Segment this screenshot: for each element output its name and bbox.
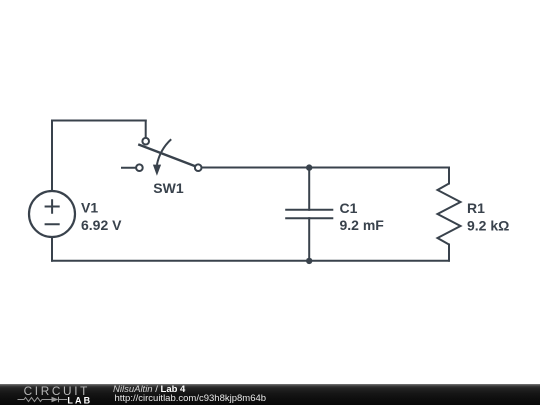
svg-text:V1: V1 xyxy=(81,200,98,216)
capacitor C1 xyxy=(285,210,333,218)
svg-text:9.2 kΩ: 9.2 kΩ xyxy=(467,217,509,233)
svg-text:LAB: LAB xyxy=(67,396,92,405)
wire left vertical lower (V1 bottom to bottom rail) xyxy=(51,237,53,261)
wire C1 bottom lead xyxy=(308,218,310,261)
svg-text:6.92 V: 6.92 V xyxy=(81,217,122,233)
SW1 throw terminal open (pin 2) xyxy=(136,164,143,171)
footer attribution xyxy=(113,383,533,385)
svg-text:R1: R1 xyxy=(467,200,485,216)
wire R1 top lead xyxy=(448,168,450,184)
wire R1 bottom lead xyxy=(448,245,450,261)
wire SW1 open-throw stub xyxy=(122,167,136,169)
label C1 xyxy=(340,200,358,216)
node A junction dot (C1 top) xyxy=(306,164,312,170)
wire bottom rail right (node B to R1) xyxy=(309,260,449,262)
wire bottom rail left (V1 to node B) xyxy=(52,260,309,262)
footer url xyxy=(115,394,267,403)
svg-text:C1: C1 xyxy=(340,200,358,216)
node B junction dot (C1 bottom) xyxy=(306,258,312,264)
SW1 actuation arrow xyxy=(153,139,171,176)
SW1 throw terminal top (pin 1) xyxy=(142,138,149,145)
value 6.92 V xyxy=(81,217,122,233)
value 9.2 mF xyxy=(340,217,385,233)
SW1 common terminal (pin 3) xyxy=(195,164,202,171)
CircuitLab logo xyxy=(0,384,110,405)
label V1 xyxy=(81,200,98,216)
svg-text:9.2 mF: 9.2 mF xyxy=(340,217,385,233)
wire left vertical upper (top rail to V1 top) xyxy=(51,121,53,192)
wire switch drop (top rail down to SW1 terminal) xyxy=(145,121,147,138)
switch SW1 xyxy=(136,138,201,176)
footer bar xyxy=(0,384,540,405)
value 9.2 kOhm xyxy=(467,217,509,233)
wire mid rail right (node A to R1 top corner) xyxy=(309,167,449,169)
voltage source V1 xyxy=(29,191,75,237)
wire top rail (top-left corner to switch drop) xyxy=(52,120,146,122)
svg-text:SW1: SW1 xyxy=(153,180,184,196)
resistor R1 xyxy=(438,184,461,245)
SW1 blade xyxy=(138,144,195,166)
wire C1 top lead xyxy=(308,168,310,210)
label SW1 xyxy=(153,180,184,196)
label R1 xyxy=(467,200,485,216)
wire mid rail left (SW1 common to node A) xyxy=(201,167,309,169)
